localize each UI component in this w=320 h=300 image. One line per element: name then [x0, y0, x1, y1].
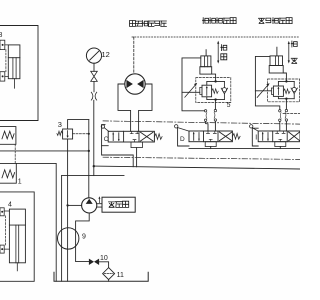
svg-text:11: 11: [117, 272, 124, 279]
coupling: quick-disconnect on gauge line: [91, 92, 96, 100]
wire: motor left port down to valve C: [118, 84, 131, 131]
svg-text:12: 12: [102, 50, 110, 59]
valve C: tank port block: [131, 142, 142, 148]
valve 10: shut-off gate valve: [89, 259, 99, 265]
valve E: manual lever: [250, 125, 253, 128]
coupling: quick-disconnect pair on luffing bottom-side line: [285, 109, 287, 111]
balance valve 7: dashed enclosure: [268, 79, 300, 102]
wire: return gallery under valves D and E: [189, 148, 300, 150]
wire: coupling to valve D left port: [206, 121, 208, 131]
wire: filter to tank: [108, 280, 110, 282]
wire: second return line to tank: [61, 176, 63, 282]
box: power take-off (取力箱): [102, 197, 135, 212]
label: lower (减): [291, 58, 297, 63]
wire: balance valve 7 loop top: [278, 81, 294, 86]
valve D: crossed-flow square: [219, 132, 232, 141]
node: loop top junction: [285, 80, 287, 82]
valve E: body: [258, 131, 300, 142]
node: junction on return line: [93, 165, 95, 167]
valve C: manual lever: [101, 125, 104, 128]
wire: tank header horizontal: [62, 175, 124, 177]
pump 2: hydraulic gear pump: [82, 198, 97, 213]
wire: gauge line down to return junction: [93, 100, 95, 166]
wire: valve D tank port to return gallery: [210, 147, 212, 149]
arrow: extend/retract indicator: [217, 43, 219, 61]
wire: pump pressure riser: [88, 120, 90, 198]
label: telescopic cylinder title (伸缩液压缸): [203, 18, 237, 24]
valve 3: pilot relief valve body: [63, 129, 73, 139]
boundary: dotted superstructure box top edge: [132, 36, 300, 38]
node: pump inlet tee on tank line: [66, 204, 68, 206]
gauge 12: pressure gauge: [86, 48, 101, 63]
wire: valve E tank port to return gallery: [279, 147, 281, 149]
valve 1: outrigger control valve (cut at edge): [0, 163, 16, 183]
wire: dashed pilot link between lock valves: [5, 50, 7, 72]
wire: balance valve 7 loop bottom: [278, 96, 294, 98]
boundary: chain line below valve bank: [103, 157, 300, 159]
joint 9: centre swivel joint circle: [57, 228, 78, 249]
valve C: parallel-flow square arrows: [113, 133, 119, 141]
wire: valve C tank port down: [136, 148, 138, 167]
wire: valve 3 outlet down to tank: [67, 139, 69, 281]
wire: lock valves to jack cylinder: [5, 45, 9, 77]
wire: valve C return gallery to junction: [94, 166, 300, 169]
wire: luffing bottom-side line down to coupling: [285, 99, 287, 110]
valve D: tank port block: [205, 142, 216, 147]
svg-text:4: 4: [8, 201, 12, 208]
wire: telescopic rod-side port line: [182, 58, 201, 92]
valve E: closed-centre marks: [276, 131, 285, 142]
cylinder: telescopic rod: [205, 50, 207, 56]
wire: balance valve 5 loop bottom: [207, 97, 225, 100]
svg-text:10: 10: [100, 255, 108, 262]
balance valve 5: spring: [212, 89, 219, 94]
label: luffing cylinder title (变幅液压缸): [259, 18, 293, 24]
balance valve 7: check valve: [291, 88, 297, 94]
wire: pilot line into balance valve 7: [255, 90, 271, 92]
tank: open reservoir: [54, 272, 148, 281]
wire: junction down to tank header: [93, 166, 95, 175]
filter 11: suction filter: [103, 268, 115, 280]
valve D: end bracket: [178, 128, 189, 146]
svg-text:C: C: [104, 136, 109, 143]
valve D: return spring: [232, 134, 240, 140]
valve D: body: [189, 131, 232, 142]
wire: gauge stem: [93, 63, 95, 71]
wire: pilot line into balance valve 5: [182, 91, 200, 93]
cylinder: telescopic cylinder body: [201, 56, 211, 67]
wire: pump suction down and across: [76, 213, 90, 262]
wire: balance valve 5 loop top: [207, 81, 225, 85]
wire: stem to coupling: [93, 81, 95, 91]
motor triangles (bidirectional): [126, 80, 143, 88]
valve 1a: outrigger control valve (cut at edge): [0, 127, 16, 145]
balance valve 5: check valve: [221, 88, 227, 94]
svg-text:D: D: [180, 136, 185, 143]
valve C: closed-centre square marks: [130, 131, 139, 142]
wire: luffing cylinder bottom port to balance valve: [283, 73, 286, 81]
check valve pair (hydraulic lock) top: [0, 208, 4, 216]
box 4: rear outrigger group frame: [0, 192, 34, 281]
label: raise (增): [291, 41, 297, 47]
wire: valve 10 to filter: [99, 262, 109, 268]
valve 3 internal arrow: [67, 131, 69, 137]
valve E: tank port block: [275, 142, 286, 147]
coupling: quick-disconnect pair on telescopic rod-side line: [204, 110, 206, 112]
check valve pair (hydraulic lock) bottom: [0, 245, 4, 253]
arrow: raise/lower indicator: [288, 43, 290, 61]
valve C: body (3-position directional valve): [108, 131, 154, 142]
node: pressure line tee to outrigger feed: [88, 150, 90, 152]
valve D: closed-centre marks: [207, 131, 217, 142]
boundary: dashed remnant near right edge: [283, 113, 300, 115]
wire: telescopic cylinder bottom port to balance valve: [212, 74, 216, 81]
wire: telescopic bottom-side line down to coupling: [214, 100, 216, 110]
motor 6: rotary hydraulic motor circle: [125, 74, 145, 94]
balance valve 7: adjustment arrow: [257, 84, 269, 98]
wire: luffing rod-side port line: [255, 56, 270, 90]
wire: lock valves to jack cylinder: [4, 211, 9, 249]
balance valve 5: main poppet body: [202, 85, 212, 97]
label: retract (缩): [221, 54, 227, 60]
wire: feed line to outrigger valves (off image left): [0, 150, 89, 152]
node: pilot tee on riser: [88, 133, 90, 135]
boundary: dashed superstructure box left edge: [133, 37, 135, 74]
balance valve 5: dashed enclosure: [196, 78, 231, 103]
node: loop bottom junction: [285, 98, 287, 100]
wire: valve 1 outlet to tank: [16, 163, 56, 281]
svg-text:3: 3: [58, 120, 62, 129]
wire: valve C inlet cover bypass: [102, 146, 134, 167]
svg-text:1: 1: [18, 178, 22, 185]
svg-text:5: 5: [227, 102, 231, 109]
wire: valve 3 pilot line (dashed): [73, 133, 89, 135]
cylinder: luffing rod: [276, 47, 278, 56]
check valve pair (hydraulic lock) bottom: [0, 72, 5, 81]
coupling: quick-disconnect pair on telescopic bottom-side line: [214, 109, 216, 111]
valve C: end bracket: [102, 125, 109, 146]
wire: coupling to valve E right port: [285, 121, 287, 131]
valve E: parallel-flow arrows: [263, 133, 268, 141]
wire: coupling to valve E left port: [279, 121, 281, 131]
label: extend (伸): [221, 45, 227, 51]
wire: valve 3 loop to pressure riser: [68, 120, 89, 129]
wire: telescopic rod-side line down to coupling: [182, 92, 204, 111]
svg-text:9: 9: [82, 234, 86, 241]
cylinder: rear outrigger jack: [9, 209, 25, 263]
valve D: parallel-flow arrows: [194, 133, 199, 141]
valve 3 spring: [57, 131, 63, 135]
valve D: manual lever: [175, 125, 178, 128]
balance valve 5: adjustment arrow: [185, 84, 197, 98]
node: loop top junction: [214, 80, 216, 82]
box 8: front outrigger group frame: [0, 26, 38, 121]
wire: dashed link between outrigger valves: [14, 144, 16, 163]
wire: motor right port down to valve C: [139, 84, 152, 131]
wire: pump port line: [68, 204, 82, 206]
coupling: quick-disconnect pair on luffing rod-side line: [279, 110, 281, 112]
valve: needle shut-off valve under gauge: [91, 71, 98, 81]
balance valve 7: spring: [283, 89, 290, 94]
valve C: return spring: [154, 134, 162, 140]
valve E: crossed-flow square: [289, 132, 300, 141]
balance valve 7: main poppet body: [273, 86, 283, 96]
arrow: shaft rotation: [98, 198, 100, 202]
valve C: crossed-flow square: [141, 132, 154, 141]
cylinder: front outrigger jack: [8, 45, 20, 79]
valve E: end bracket: [252, 128, 258, 146]
node: loop bottom junction: [214, 98, 216, 100]
wire: coupling to valve D right port: [214, 121, 216, 131]
cylinder: luffing cylinder body: [270, 56, 283, 66]
label: rotary hydraulic motor title (回转液压马达): [130, 21, 167, 27]
shaft: pump drive shaft to PTO: [97, 204, 102, 207]
boundary: chain line above valve bank: [103, 121, 300, 124]
svg-text:8: 8: [0, 32, 3, 39]
wire: luffing rod-side line down to coupling: [255, 91, 279, 110]
check valve pair (hydraulic lock) top: [0, 40, 5, 49]
wire: dashed pilot link between lock valves: [4, 216, 6, 245]
valve E: section mark: [255, 135, 257, 139]
